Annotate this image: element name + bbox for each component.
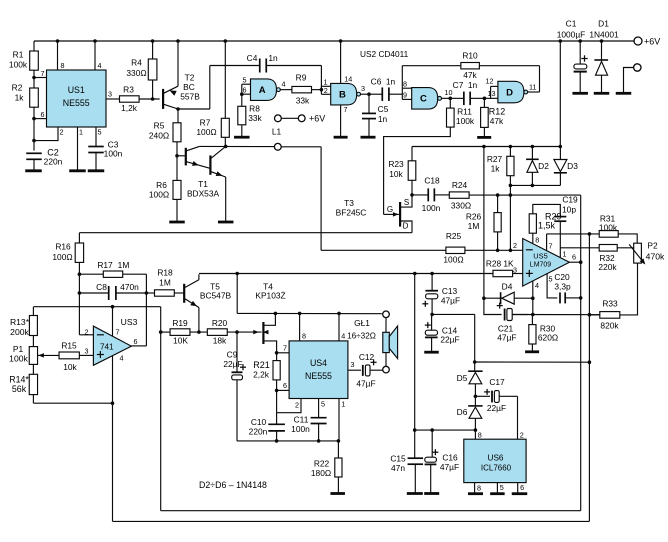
wire US6 pin 8 (474, 430, 476, 439)
svg-text:4: 4 (282, 80, 286, 89)
svg-text:R21: R21 (253, 360, 270, 370)
svg-text:C16: C16 (442, 453, 458, 463)
svg-text:6: 6 (243, 86, 247, 95)
capacitor C7 (450, 97, 464, 99)
svg-text:C10: C10 (251, 417, 267, 427)
svg-text:R13*: R13* (10, 317, 30, 327)
svg-text:C8: C8 (96, 282, 107, 292)
svg-text:R20: R20 (212, 318, 228, 328)
svg-text:12: 12 (486, 77, 494, 86)
wire R17 to output (145, 274, 147, 346)
ground under C5 (361, 136, 376, 139)
IC US4 NE555 (289, 341, 348, 399)
svg-text:4: 4 (341, 332, 345, 341)
svg-text:3: 3 (85, 346, 89, 355)
gate US2.B (321, 85, 330, 87)
svg-text:330Ω: 330Ω (126, 68, 146, 78)
svg-text:6: 6 (520, 483, 524, 492)
wire +6V sub-rail (412, 146, 560, 148)
capacitor C12 (360, 369, 362, 371)
svg-text:BC547B: BC547B (200, 291, 232, 301)
svg-text:33k: 33k (296, 96, 310, 106)
capacitor C21 (504, 309, 506, 321)
svg-text:47k: 47k (463, 70, 477, 80)
wire US5 pin 4 (532, 281, 534, 298)
resistor R11 (449, 98, 451, 108)
transistor T5 BC547B (183, 284, 185, 303)
svg-text:R27: R27 (487, 154, 503, 164)
svg-text:D2: D2 (538, 161, 549, 171)
resistor R17 feedback (79, 273, 103, 275)
svg-text:R4: R4 (131, 58, 142, 68)
svg-text:+6V: +6V (309, 114, 325, 124)
transistor T1 BDX53A darlington (177, 155, 185, 157)
resistor R7 (224, 41, 226, 118)
svg-text:D3: D3 (567, 161, 578, 171)
wire bottom inner rail (161, 510, 581, 512)
resistor R1 (33, 41, 35, 51)
resistor R21 (273, 361, 280, 380)
wire US6 pin 5 (496, 483, 498, 493)
svg-text:ICL7660: ICL7660 (481, 464, 512, 473)
svg-text:T2: T2 (185, 73, 195, 83)
wire US4 pin 3 (348, 369, 361, 371)
svg-text:100Ω: 100Ω (52, 252, 72, 262)
svg-text:C1: C1 (566, 19, 577, 29)
svg-text:4: 4 (120, 354, 124, 363)
wire US1 pin 4 (94, 41, 96, 70)
diode D3 (559, 147, 561, 160)
svg-text:B: B (339, 89, 346, 100)
resistor R3 (120, 96, 140, 102)
gate US2.A (242, 83, 251, 85)
svg-text:180Ω: 180Ω (311, 468, 331, 478)
svg-text:100Ω: 100Ω (196, 127, 216, 137)
svg-text:R23: R23 (388, 159, 404, 169)
svg-text:11: 11 (529, 83, 536, 92)
svg-text:22µF: 22µF (223, 359, 242, 369)
svg-text:18k: 18k (213, 336, 227, 346)
svg-text:R24: R24 (452, 180, 468, 190)
svg-text:7: 7 (344, 105, 348, 114)
wire diode clamp bottom rail (510, 184, 560, 186)
svg-text:3: 3 (361, 84, 365, 93)
wire gate D output pin 11 (528, 91, 540, 93)
svg-text:8: 8 (302, 332, 306, 341)
svg-text:2: 2 (295, 401, 299, 410)
svg-text:10K: 10K (173, 336, 188, 346)
wire US5 output (569, 261, 580, 263)
svg-text:D5: D5 (457, 373, 468, 383)
wire R14 to bottom (33, 402, 112, 404)
svg-text:1M: 1M (468, 221, 480, 231)
svg-text:10k: 10k (63, 362, 77, 372)
svg-text:7: 7 (41, 69, 45, 78)
wire US6 pin 3 (474, 483, 476, 493)
svg-text:C12: C12 (359, 352, 375, 362)
ground under R22 (330, 492, 345, 495)
svg-text:56k: 56k (12, 384, 27, 394)
ground under C2 (25, 169, 42, 172)
potentiometer P2 (634, 243, 642, 263)
resistor R4 (152, 41, 154, 59)
svg-text:R2: R2 (12, 83, 23, 93)
svg-text:240Ω: 240Ω (149, 131, 169, 141)
svg-text:C11: C11 (294, 415, 309, 425)
svg-text:R7: R7 (200, 118, 211, 128)
wire gate C output (442, 97, 451, 99)
ground under T1 (218, 221, 234, 224)
svg-text:R10: R10 (462, 51, 478, 61)
wire gate B output (361, 93, 370, 95)
wire US1 pin 3 (106, 98, 120, 100)
resistor R14* (32, 364, 34, 374)
svg-text:C13: C13 (442, 286, 458, 296)
svg-text:47µF: 47µF (440, 462, 459, 472)
svg-text:5: 5 (243, 75, 247, 84)
svg-text:L1: L1 (272, 127, 282, 137)
ground under C1 (572, 92, 588, 95)
svg-text:5: 5 (321, 400, 325, 409)
svg-text:6: 6 (283, 381, 287, 390)
resistor R16 (78, 233, 80, 243)
wire right outer vertical (588, 234, 590, 522)
wire US4 pin 8 (299, 313, 301, 341)
capacitor C18 (412, 194, 428, 196)
wire US5 pin 7 (546, 234, 548, 251)
wire US4 pin 7 (277, 352, 290, 354)
svg-text:BF245C: BF245C (336, 208, 367, 218)
wire T4/US4 supply line (236, 274, 238, 314)
transistor T3 BF245C jfet (400, 195, 412, 207)
ground under C14 (424, 351, 439, 354)
svg-text:P2: P2 (647, 241, 658, 251)
svg-text:16÷32Ω: 16÷32Ω (347, 332, 376, 341)
svg-text:8: 8 (535, 235, 539, 244)
opamp US3 741 (93, 326, 131, 365)
svg-text:R22: R22 (314, 459, 330, 469)
svg-text:GŁ1: GŁ1 (354, 318, 370, 328)
capacitor C3 (88, 146, 104, 148)
svg-text:T3: T3 (344, 198, 354, 208)
svg-text:A: A (259, 85, 266, 96)
svg-text:100Ω: 100Ω (149, 190, 169, 200)
svg-text:C6: C6 (371, 77, 382, 87)
svg-text:100k: 100k (599, 222, 618, 232)
svg-text:8: 8 (478, 431, 482, 440)
svg-text:330Ω: 330Ω (451, 201, 471, 211)
svg-text:D: D (403, 222, 409, 231)
gate US2.C (412, 88, 438, 110)
svg-text:R5: R5 (154, 121, 165, 131)
wire US4 pin 1 (338, 399, 340, 441)
wire US4 ground rail (237, 440, 338, 442)
svg-text:2,2k: 2,2k (253, 370, 270, 380)
transistor T4 KP103Z jfet (262, 322, 264, 344)
resistor R13* (32, 307, 34, 316)
svg-text:R16: R16 (55, 242, 71, 252)
capacitor C17 (475, 395, 490, 397)
svg-text:3: 3 (108, 90, 112, 99)
resistor R20 (207, 329, 227, 336)
wire supply down right (160, 307, 162, 511)
svg-text:741: 741 (100, 342, 114, 351)
ground under US6 pin 6 (512, 492, 528, 495)
ground under R12 (477, 136, 491, 139)
wire D3 to top rail (559, 41, 561, 147)
svg-text:9: 9 (403, 91, 407, 100)
svg-text:6: 6 (134, 337, 138, 346)
wire US1 pin 5 (95, 127, 97, 147)
capacitor C13 (431, 274, 433, 291)
wire clamp node down (509, 185, 511, 250)
svg-text:US1: US1 (68, 85, 85, 95)
svg-text:R1: R1 (13, 50, 24, 60)
svg-text:C15: C15 (390, 454, 406, 464)
svg-text:R8: R8 (249, 104, 260, 114)
svg-text:US3: US3 (121, 317, 138, 327)
svg-text:1M: 1M (118, 260, 130, 270)
wire US5 pin 5 to C20 (547, 274, 557, 298)
svg-text:47µF: 47µF (497, 333, 516, 343)
svg-text:2: 2 (513, 241, 517, 250)
svg-text:D4: D4 (502, 282, 513, 292)
capacitor C8 (79, 292, 108, 294)
svg-text:1: 1 (563, 250, 567, 259)
svg-text:100k: 100k (456, 116, 475, 126)
IC US1 NE555 (47, 70, 107, 127)
svg-text:1,2k: 1,2k (121, 103, 138, 113)
svg-text:BDX53A: BDX53A (187, 189, 220, 199)
capacitor C10 (276, 413, 278, 425)
wire US3 pin 4 (112, 356, 114, 522)
svg-text:D6: D6 (457, 407, 468, 417)
speaker GL1 (383, 311, 390, 318)
capacitor C2 (26, 152, 42, 154)
resistor R22 (337, 441, 339, 458)
svg-text:2: 2 (60, 128, 64, 137)
capacitor C19 comp (554, 216, 566, 218)
svg-text:13: 13 (488, 89, 496, 98)
wire C21 R30 R33 line (512, 314, 600, 316)
svg-text:100n: 100n (104, 149, 123, 159)
wire negative line right (475, 361, 590, 363)
wire US1 pin 2 (34, 127, 58, 141)
wire output vertical (580, 195, 582, 511)
wire US4 pin 6 (277, 389, 290, 391)
svg-text:C17: C17 (489, 377, 505, 387)
svg-text:47µF: 47µF (441, 296, 460, 306)
svg-text:R15: R15 (61, 341, 77, 351)
svg-text:47µF: 47µF (356, 379, 375, 389)
svg-text:1: 1 (79, 128, 83, 137)
resistor R28 (199, 273, 493, 275)
svg-text:US4: US4 (310, 358, 327, 368)
svg-text:+6V: +6V (644, 37, 660, 47)
svg-text:1N4001: 1N4001 (589, 30, 619, 40)
svg-text:C4: C4 (247, 53, 258, 63)
svg-text:620Ω: 620Ω (538, 333, 558, 343)
svg-text:T1: T1 (198, 179, 208, 189)
svg-text:1M: 1M (159, 278, 171, 288)
svg-text:100k: 100k (9, 60, 28, 70)
diode D5 (474, 362, 476, 371)
svg-text:BC: BC (183, 82, 195, 92)
wire US1 pin 8 (57, 41, 59, 70)
svg-text:100n: 100n (422, 203, 441, 213)
svg-text:6: 6 (41, 110, 45, 119)
wire R31 line (547, 233, 600, 235)
svg-text:10k: 10k (389, 169, 403, 179)
svg-text:1k: 1k (15, 93, 25, 103)
terminal 0V (634, 64, 641, 71)
svg-text:33k: 33k (248, 113, 262, 123)
svg-text:US6: US6 (488, 454, 504, 463)
svg-text:6: 6 (572, 253, 576, 262)
svg-text:C7: C7 (453, 80, 464, 90)
svg-text:100k: 100k (9, 354, 28, 364)
svg-text:US5: US5 (533, 252, 547, 261)
svg-text:7: 7 (549, 242, 553, 251)
wire US3 output (131, 345, 146, 347)
svg-text:7: 7 (283, 344, 287, 353)
svg-text:C9: C9 (227, 350, 238, 360)
capacitor C20 (559, 292, 561, 303)
svg-text:1K: 1K (503, 259, 514, 269)
resistor R30 (531, 315, 533, 325)
wire clamp vertical to C21 (483, 147, 485, 299)
svg-text:1: 1 (341, 400, 345, 409)
resistor R2 (30, 88, 39, 107)
diode D2 (531, 147, 533, 160)
ground under US6 pin 3 (468, 492, 483, 495)
svg-text:R11: R11 (457, 107, 472, 117)
link L1 (275, 115, 282, 122)
wire US1 pin 1 (77, 127, 79, 170)
capacitor C4 (210, 65, 260, 67)
svg-text:R3: R3 (123, 85, 134, 95)
transistor T2 BC557B (162, 89, 164, 109)
svg-text:10: 10 (445, 88, 453, 97)
wire US2 pin 7 to ground (340, 105, 342, 136)
ground under US1 pin 1 (69, 169, 86, 172)
resistor R19 (161, 331, 170, 333)
wire supply line left (34, 306, 161, 308)
wire US6 pin 6 (517, 483, 519, 493)
svg-text:1n: 1n (378, 114, 388, 124)
svg-text:1,5k: 1,5k (538, 221, 556, 231)
ground under C3 (88, 169, 105, 172)
diode D6 (474, 396, 476, 406)
wire gate A output (280, 89, 292, 91)
wire US4 pin 4 (338, 313, 340, 341)
svg-text:220k: 220k (598, 262, 617, 272)
ground under D1 (594, 92, 610, 95)
svg-text:8: 8 (477, 484, 481, 493)
resistor R8 (241, 94, 243, 106)
capacitor C6 (369, 93, 382, 95)
wire US2 pin 14 (340, 41, 342, 83)
svg-text:D: D (506, 87, 513, 98)
svg-text:1n: 1n (386, 77, 396, 87)
svg-text:100n: 100n (291, 424, 310, 434)
svg-text:7: 7 (116, 328, 120, 337)
svg-text:820k: 820k (600, 321, 619, 331)
terminal probe circle (274, 143, 281, 150)
ground under R8 (234, 136, 250, 139)
svg-text:US2 CD4011: US2 CD4011 (360, 49, 409, 59)
resistor R32 (599, 245, 617, 252)
svg-text:100Ω: 100Ω (443, 255, 463, 265)
svg-text:R19: R19 (172, 318, 188, 328)
resistor R23 (411, 147, 413, 161)
svg-text:C19: C19 (562, 195, 578, 205)
svg-text:1n: 1n (468, 80, 478, 90)
wire T3 drain long line (79, 232, 412, 234)
svg-text:47n: 47n (391, 463, 405, 473)
svg-text:D1: D1 (598, 19, 609, 29)
ground under R30 (525, 350, 539, 353)
svg-text:2: 2 (324, 86, 328, 95)
resistor R26 (497, 195, 499, 213)
wire +6V top rail (34, 40, 634, 42)
resistor R9 (292, 86, 312, 92)
ground under R6 (169, 221, 185, 224)
wire T2 collector node (177, 109, 179, 123)
opamp US5 LM709 (523, 239, 570, 287)
resistor R5 (173, 123, 181, 142)
capacitor C5 (368, 94, 370, 113)
resistor R24 (449, 192, 469, 198)
svg-text:R9: R9 (296, 73, 307, 83)
resistor R27 (509, 147, 511, 157)
svg-text:220n: 220n (249, 427, 268, 437)
capacitor C1 1000uF (579, 41, 581, 64)
IC US6 ICL7660 (464, 439, 526, 482)
svg-text:R33: R33 (602, 299, 618, 309)
wire T1 collector line (199, 145, 274, 147)
capacitor C15 (414, 430, 416, 458)
svg-text:4: 4 (535, 281, 539, 290)
svg-text:5: 5 (500, 483, 504, 492)
svg-text:22µF: 22µF (487, 403, 506, 413)
svg-text:R6: R6 (156, 180, 167, 190)
svg-text:G: G (387, 205, 393, 214)
svg-text:1k: 1k (491, 164, 501, 174)
diode D4 (484, 297, 502, 299)
svg-text:557B: 557B (180, 92, 200, 102)
svg-text:14: 14 (344, 75, 352, 84)
svg-text:S: S (404, 198, 409, 207)
svg-text:R26: R26 (466, 212, 482, 222)
wire bottom outer rail (113, 520, 590, 522)
svg-text:3: 3 (351, 360, 355, 369)
svg-text:1n: 1n (268, 53, 278, 63)
svg-text:R18: R18 (157, 268, 173, 278)
svg-text:5: 5 (98, 128, 102, 137)
resistor R25 (321, 249, 446, 251)
node gate C input (401, 66, 403, 100)
resistor R12 (483, 98, 485, 107)
capacitor C9 (236, 332, 238, 371)
svg-text:1000µF: 1000µF (557, 30, 586, 40)
ground under C16 (424, 492, 439, 495)
svg-text:D2÷D6 – 1N4148: D2÷D6 – 1N4148 (199, 480, 267, 490)
svg-text:470k: 470k (646, 252, 665, 262)
capacitor C11 (311, 417, 327, 419)
svg-text:200k: 200k (10, 327, 29, 337)
svg-text:KP103Ż: KP103Ż (255, 291, 285, 301)
